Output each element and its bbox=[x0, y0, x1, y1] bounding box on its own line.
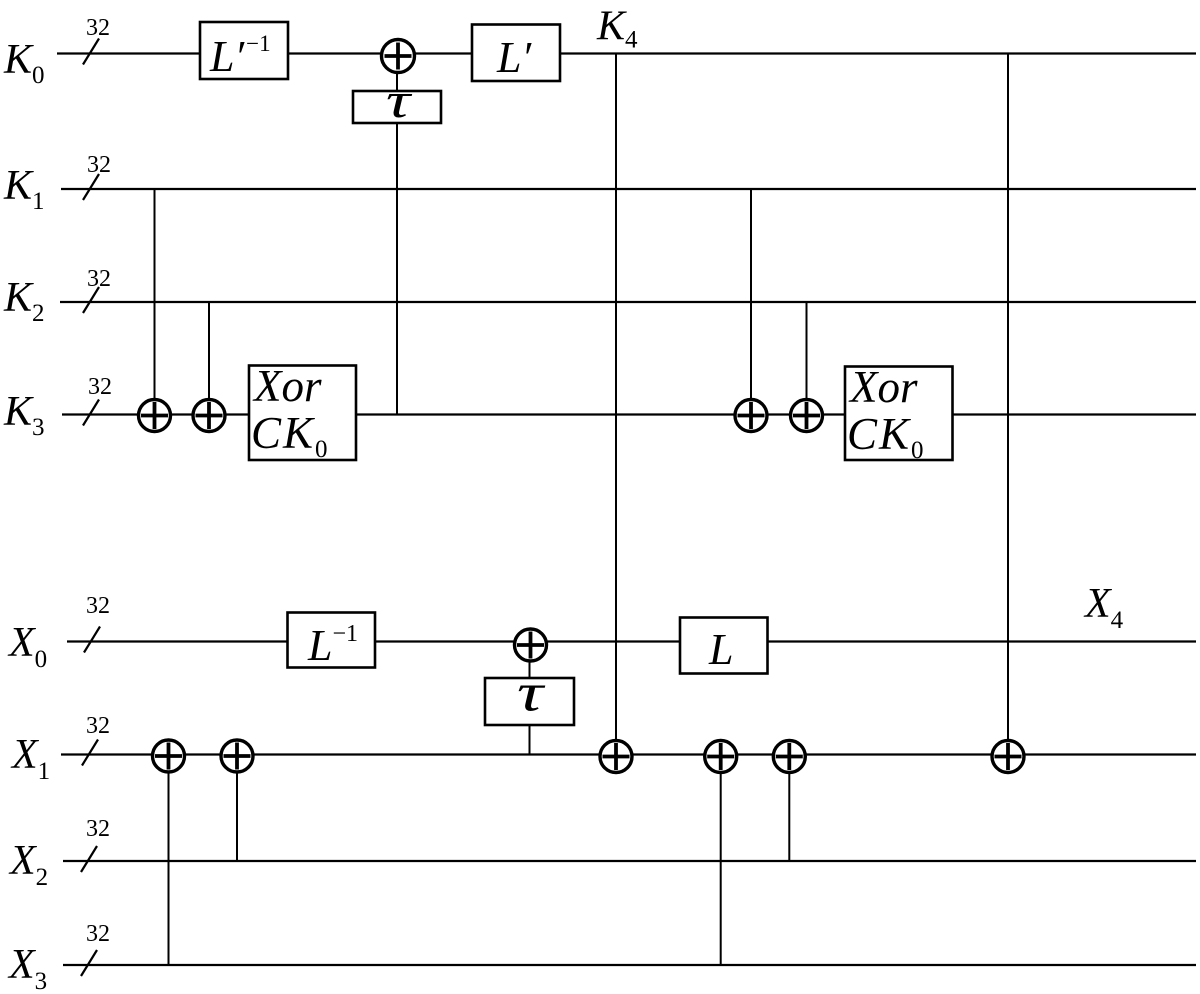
wire xor X0 to tau box bbox=[529, 660, 531, 678]
box L-1 inverse linear transform on X0 bbox=[288, 613, 376, 671]
wire K2 bus line bbox=[60, 301, 1196, 303]
wire tau box down to X1 bbox=[529, 725, 531, 755]
svg-text:Xor: Xor bbox=[848, 362, 918, 412]
wire from K1 down to right xor on K3 bbox=[750, 189, 752, 400]
wire xor on X1 down to X2 bbox=[236, 771, 238, 861]
bus slash X3 bbox=[81, 950, 97, 976]
svg-text:L′: L′ bbox=[496, 33, 532, 82]
wire from K2 down to xor on K3 bbox=[208, 302, 210, 400]
wire X2 bus line bbox=[63, 860, 1196, 862]
xor gate on K0 bbox=[382, 40, 415, 73]
svg-text:32: 32 bbox=[86, 713, 110, 739]
svg-text:32: 32 bbox=[88, 374, 112, 400]
xor gate 4 on X1 bbox=[705, 741, 737, 773]
wire X3 bus line bbox=[63, 964, 1196, 966]
box L linear transform on X0 bbox=[680, 618, 768, 675]
xor gate 3 on K3 bbox=[735, 400, 767, 432]
bus slash K1 bbox=[83, 174, 99, 200]
xor gate 1 on K3 bbox=[139, 400, 171, 432]
box tau substitution on X path bbox=[485, 663, 574, 725]
svg-text:32: 32 bbox=[87, 266, 111, 292]
bus slash K3 bbox=[83, 400, 99, 426]
box L' linear transform on K0 bbox=[472, 25, 560, 83]
wire from K1 down to xor on K3 bbox=[154, 189, 156, 400]
xor gate 1 on X1 bbox=[153, 740, 185, 772]
svg-text:32: 32 bbox=[86, 15, 110, 41]
bus slash X2 bbox=[81, 846, 97, 872]
svg-text:τ: τ bbox=[386, 72, 413, 128]
svg-text:τ: τ bbox=[517, 663, 545, 723]
xor gate 6 on X1 far right bbox=[992, 741, 1024, 773]
wire K0 bus line bbox=[57, 52, 1196, 54]
bus slash K0 bbox=[83, 39, 99, 65]
xor gate 4 on K3 bbox=[791, 400, 823, 432]
svg-text:32: 32 bbox=[87, 152, 111, 178]
bus slash X1 bbox=[82, 740, 98, 766]
box Xor CK0 left bbox=[249, 361, 356, 463]
xor gate 5 on X1 bbox=[773, 741, 805, 773]
wire xor K0 to tau box bbox=[396, 71, 398, 91]
svg-text:Xor: Xor bbox=[252, 361, 322, 411]
svg-text:32: 32 bbox=[86, 921, 110, 947]
wire from K2 down to right xor on K3 bbox=[806, 302, 808, 400]
wire X1 bus line bbox=[61, 753, 1196, 755]
wire tau box down to K3 bbox=[396, 123, 398, 415]
wire X0 bus line bbox=[67, 640, 1196, 642]
svg-text:32: 32 bbox=[86, 593, 110, 619]
xor gate 3 on X1 center bbox=[600, 741, 632, 773]
svg-text:32: 32 bbox=[86, 816, 110, 842]
wire K0 right branch down to far xor on X1 bbox=[1007, 54, 1009, 742]
box tau substitution on K path bbox=[353, 72, 441, 128]
xor gate 2 on K3 bbox=[193, 400, 225, 432]
wire K3 bus line bbox=[62, 413, 1196, 415]
svg-text:L: L bbox=[708, 625, 733, 674]
wire right xor on X1 down to X3 bbox=[720, 772, 722, 965]
wire node K4 down to xor on X1 bbox=[615, 54, 617, 742]
box Xor CK0 right bbox=[845, 362, 953, 464]
wire K1 bus line bbox=[61, 188, 1196, 190]
wire xor on X1 down to X3 bbox=[168, 771, 170, 965]
xor gate on X0 bbox=[515, 629, 547, 661]
box L'-1 inverse linear transform on K0 bbox=[200, 22, 288, 81]
wire right xor on X1 down to X2 bbox=[788, 772, 790, 861]
bus slash X0 bbox=[84, 627, 100, 653]
xor gate 2 on X1 bbox=[221, 740, 253, 772]
bus slash K2 bbox=[83, 287, 99, 313]
